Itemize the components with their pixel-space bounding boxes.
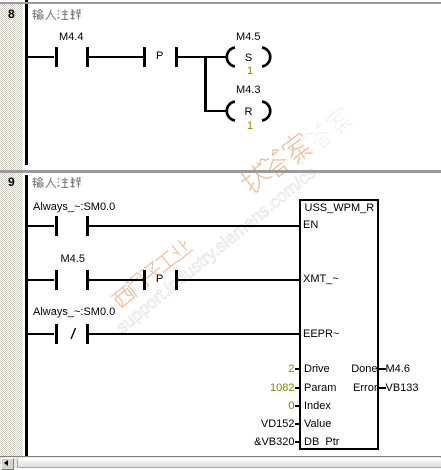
svg-text:R: R — [245, 106, 253, 118]
svg-text:S: S — [245, 52, 252, 64]
svg-text:support.industry.siemens.com/c: support.industry.siemens.com/cs — [112, 162, 320, 337]
